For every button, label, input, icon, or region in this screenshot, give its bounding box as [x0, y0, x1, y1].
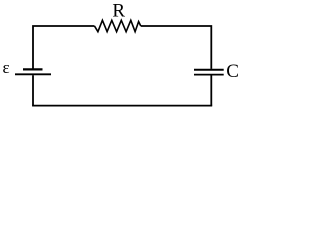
battery (EMF source) top plate, short thick — [23, 68, 43, 70]
wire: right branch lower from capacitor to bottom-right corner — [210, 76, 212, 106]
svg-text:C: C — [226, 61, 239, 82]
capacitor C1 top plate — [194, 69, 224, 71]
battery (EMF source) bottom plate, long thin — [15, 73, 51, 75]
svg-text:R: R — [112, 1, 125, 22]
wire: bottom branch — [32, 105, 212, 107]
capacitor C1 bottom plate — [194, 74, 224, 76]
wire: left branch upper with top-left corner to resistor — [33, 26, 95, 69]
resistor R1 zigzag — [95, 20, 141, 31]
wire: top right segment from resistor with top-right corner down to capacitor — [141, 26, 212, 69]
svg-text:ε: ε — [3, 58, 10, 77]
wire: left branch lower from battery to bottom-left corner — [32, 75, 34, 105]
